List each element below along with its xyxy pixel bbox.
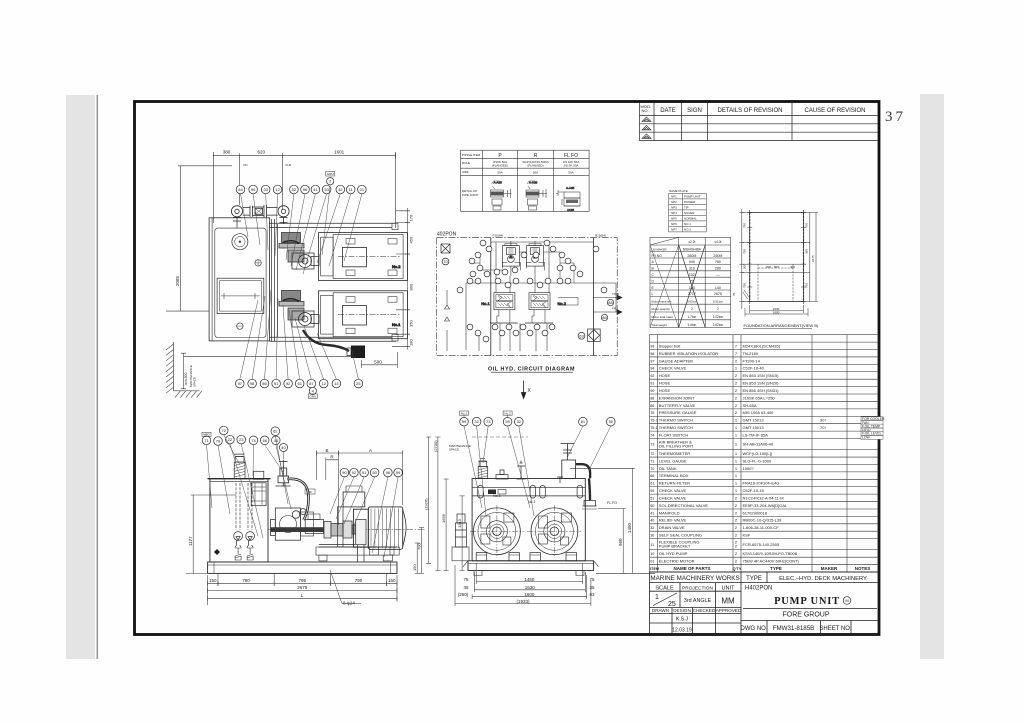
svg-text:32: 32 (474, 419, 479, 424)
svg-text:GRU: GRU (327, 172, 334, 176)
level gauge small circle (255, 260, 261, 266)
svg-text:A135: A135 (567, 208, 574, 212)
svg-text:A-A35: A-A35 (494, 181, 503, 185)
svg-text:50A: 50A (497, 171, 502, 175)
svg-text:1177: 1177 (188, 536, 193, 546)
svg-text:180: 180 (409, 339, 414, 346)
svg-text:(1933): (1933) (516, 599, 530, 604)
svg-text:FLOAT SWITCH: FLOAT SWITCH (659, 432, 689, 437)
svg-text:APPROVED: APPROVED (716, 608, 742, 613)
svg-text:No.1: No.1 (392, 322, 401, 327)
svg-text:750: 750 (743, 249, 747, 254)
svg-text:DRAWN: DRAWN (652, 608, 669, 613)
unit envelope right pads (392, 223, 398, 230)
svg-text:99: 99 (396, 470, 401, 475)
svg-text:50: 50 (609, 419, 614, 424)
svg-text:13: 13 (334, 381, 339, 386)
svg-text:TYPE: TYPE (746, 576, 762, 582)
svg-text:98: 98 (386, 470, 391, 475)
svg-text:No.2: No.2 (504, 411, 511, 415)
drawing frame border (135, 102, 880, 635)
svg-text:61: 61 (581, 419, 586, 424)
svg-text:SCALE: SCALE (655, 586, 674, 592)
svg-text:WCF(LO-100[L]): WCF(LO-100[L]) (743, 451, 773, 456)
svg-text:385: 385 (805, 249, 809, 254)
svg-text:PROJECTION: PROJECTION (682, 586, 713, 592)
flexible hose arc (side) (287, 479, 309, 520)
svg-text:800: 800 (774, 265, 779, 269)
svg-text:42: 42 (338, 187, 343, 192)
svg-text:99: 99 (650, 344, 654, 348)
parts list table (650, 335, 880, 572)
svg-text:90: 90 (342, 470, 347, 475)
plan view top dimension line 380/620/1601 (213, 152, 395, 228)
valve stand w/ handwheel (side) (276, 460, 291, 486)
svg-text:LOW: LOW (862, 436, 871, 440)
pump internals in flywheels (481, 513, 572, 545)
svg-text:DRAIN VALVE: DRAIN VALVE (659, 525, 685, 530)
right side connection stubs (558, 0, 655, 315)
svg-text:87: 87 (309, 381, 314, 386)
svg-text:76: 76 (650, 411, 654, 415)
svg-text:No.1: No.1 (493, 494, 500, 498)
svg-text:MANIFOLD: MANIFOLD (659, 510, 680, 515)
hydraulic pump group (plan) (279, 291, 319, 328)
svg-text:70: 70 (443, 259, 448, 264)
svg-text:HOSE: HOSE (659, 373, 671, 378)
circuit pump unit blocks (502, 241, 520, 276)
motor (side) (343, 486, 406, 555)
svg-text:C52F-10-40: C52F-10-40 (743, 366, 765, 371)
svg-text:800: 800 (409, 283, 414, 290)
leader lines from bottom balloons (240, 290, 359, 379)
svg-text:96: 96 (308, 490, 312, 494)
svg-text:91: 91 (650, 382, 654, 386)
side balloon leaders (207, 435, 292, 538)
svg-text:760: 760 (805, 223, 809, 228)
svg-text:200: 200 (766, 265, 771, 269)
svg-text:2675: 2675 (714, 292, 722, 296)
oil tank (plan) (209, 218, 269, 341)
svg-text:92: 92 (286, 381, 291, 386)
svg-text:170: 170 (409, 214, 414, 221)
svg-text:760: 760 (715, 260, 721, 264)
svg-text:RELIEF VALVE: RELIEF VALVE (659, 518, 687, 523)
svg-text:NP1: NP1 (671, 195, 677, 199)
svg-text:2675: 2675 (811, 255, 815, 262)
svg-text:91: 91 (274, 381, 279, 386)
balloon callouts top row (plan) (236, 185, 245, 194)
circuit manifold blocks No.1 No.2 (481, 293, 518, 323)
svg-text:95: 95 (251, 187, 256, 192)
svg-text:2.62ton: 2.62ton (713, 323, 724, 327)
electric motor No.2 (plan) (319, 233, 408, 281)
P and R supply lines (491, 238, 594, 356)
svg-text:FT200-14: FT200-14 (743, 358, 761, 363)
svg-text:380: 380 (223, 150, 231, 155)
svg-text:No.1: No.1 (481, 301, 490, 306)
svg-text:GAUGE ADAPTER: GAUGE ADAPTER (659, 358, 693, 363)
svg-text:RB00C-10-Q/315-L39: RB00C-10-Q/315-L39 (743, 518, 783, 523)
svg-text:FRA16-20F10F-E4G: FRA16-20F10F-E4G (743, 481, 780, 486)
svg-text:1600: 1600 (524, 592, 535, 597)
circuit bottom drain collectors (445, 283, 617, 351)
svg-text:SPACE: SPACE (193, 377, 197, 387)
svg-text:CHECKED: CHECKED (693, 608, 716, 613)
svg-text:TOW: TOW (612, 292, 619, 296)
svg-text:≤4.0t: ≤4.0t (714, 240, 721, 244)
svg-text:94: 94 (650, 367, 654, 371)
svg-text:71: 71 (650, 459, 654, 463)
leader lines from top balloons (241, 185, 362, 274)
feet (front) (476, 553, 576, 561)
svg-text:ELEC.–HYD. DECK MACHINERY: ELEC.–HYD. DECK MACHINERY (779, 576, 867, 582)
svg-text:A-A35: A-A35 (529, 181, 538, 185)
coupling discs (324, 521, 362, 538)
svg-text:ITEM: ITEM (650, 567, 659, 571)
svg-text:1450: 1450 (524, 577, 535, 582)
svg-text:61702900018: 61702900018 (743, 510, 768, 515)
svg-text:700: 700 (417, 543, 422, 550)
front view machine frame (472, 479, 585, 561)
svg-text:102: 102 (689, 273, 695, 277)
svg-text:TYPE: TYPE (770, 566, 782, 571)
svg-text:66: 66 (650, 474, 654, 478)
plan view left dimension 2085 (166, 166, 232, 311)
svg-text:KSF: KSF (743, 533, 751, 538)
svg-text:NP4: NP4 (671, 211, 677, 215)
svg-text:POWER: POWER (684, 200, 696, 204)
svg-text:402PON: 402PON (437, 232, 457, 238)
crossed-out column X (679, 245, 706, 328)
svg-text:12: 12 (275, 187, 280, 192)
svg-text:EE5P-33-204-WA[D]GAL: EE5P-33-204-WA[D]GAL (743, 503, 789, 508)
svg-text:FMW31-8185B: FMW31-8185B (773, 625, 815, 632)
check valve assembly right (front) (561, 444, 598, 510)
svg-text:LEVEL GAUGE: LEVEL GAUGE (659, 458, 687, 463)
strainer symbol box (441, 244, 450, 253)
svg-text:DWG NO.: DWG NO. (741, 626, 768, 632)
balloon callouts bottom row (plan) (236, 379, 245, 388)
svg-text:NP3: NP3 (671, 206, 677, 210)
svg-text:PIPE JOINT: PIPE JOINT (462, 193, 479, 197)
svg-text:3.4ton: 3.4ton (687, 323, 696, 327)
svg-text:10: 10 (650, 552, 654, 556)
svg-text:A-A35: A-A35 (566, 186, 575, 190)
svg-text:UNIT: UNIT (721, 586, 735, 592)
svg-text:FR.NO: FR.NO (652, 254, 663, 258)
svg-text:J10SK 65A L=250: J10SK 65A L=250 (743, 395, 776, 400)
svg-text:1000?: 1000? (743, 466, 755, 471)
svg-text:ELECTRIC MOTOR: ELECTRIC MOTOR (659, 558, 695, 563)
svg-text:2717: 2717 (688, 292, 696, 296)
svg-text:B: B (325, 448, 328, 453)
base skid (front) (463, 561, 599, 576)
svg-text:(FLANGED): (FLANGED) (492, 164, 508, 168)
tank manhole (217, 278, 264, 313)
svg-text:(1926): (1926) (424, 498, 429, 510)
svg-text:CHECK VALVE: CHECK VALVE (659, 495, 687, 500)
svg-text:41: 41 (313, 187, 318, 192)
svg-text:MPG: MPG (203, 433, 211, 437)
svg-text:750: 750 (743, 223, 747, 228)
svg-text:450: 450 (409, 236, 414, 243)
svg-text:300: 300 (743, 264, 747, 269)
pump / manifold column between tank and motors (270, 219, 397, 341)
svg-text:75-2: 75-2 (650, 419, 658, 423)
svg-text:NO.2: NO.2 (684, 228, 691, 232)
left cooler unit (front) (452, 514, 469, 561)
svg-text:92: 92 (352, 470, 357, 475)
svg-text:PUMP UNIT: PUMP UNIT (684, 195, 701, 199)
svg-text:Motor quantity: Motor quantity (652, 307, 671, 311)
svg-text:THERMO SWITCH: THERMO SWITCH (659, 425, 693, 430)
svg-text:min.500: min.500 (184, 372, 188, 385)
svg-text:SOL.DIRECTIONAL VALVE: SOL.DIRECTIONAL VALVE (659, 503, 709, 508)
svg-text:MAKER: MAKER (821, 566, 838, 571)
svg-text:L: L (652, 292, 654, 296)
svg-text:SHEET NO.: SHEET NO. (819, 626, 852, 632)
svg-text:RULE: RULE (462, 161, 470, 165)
svg-text:86: 86 (262, 381, 267, 386)
svg-text:98: 98 (250, 381, 255, 386)
svg-text:59: 59 (505, 419, 510, 424)
svg-text:NO.: NO. (642, 108, 649, 113)
svg-text:PIPING ITEM: PIPING ITEM (462, 153, 481, 157)
svg-text:23: 23 (239, 437, 244, 442)
svg-text:51: 51 (362, 470, 367, 475)
svg-text:400: 400 (790, 265, 795, 269)
svg-text:(FLANGED): (FLANGED) (527, 164, 543, 168)
central vertical dimension cluster (415, 437, 465, 573)
svg-text:2675: 2675 (297, 585, 308, 590)
svg-text:FL FO: FL FO (564, 153, 578, 159)
svg-text:97: 97 (238, 381, 243, 386)
svg-text:12.03.19: 12.03.19 (672, 628, 692, 634)
svg-text:51: 51 (650, 496, 654, 500)
self seal coupling (dark block) (351, 346, 365, 359)
svg-text:OIL HYD. CIRCUIT DIAGRAM: OIL HYD. CIRCUIT DIAGRAM (488, 366, 575, 372)
left grey scan band (66, 95, 95, 659)
svg-text:280: 280 (715, 267, 721, 271)
side view bottom dimensions (208, 573, 397, 605)
svg-text:790: 790 (355, 578, 363, 583)
air breather (plan circle) (232, 234, 248, 250)
svg-text:CHECK VALVE: CHECK VALVE (659, 488, 687, 493)
svg-text:JIS 5K 50A: JIS 5K 50A (563, 164, 578, 168)
svg-text:Total weight: Total weight (652, 323, 667, 327)
suction strainer (234, 532, 243, 541)
title block (650, 572, 880, 635)
svg-text:MIS 100A 63-400: MIS 100A 63-400 (743, 410, 775, 415)
svg-text:59: 59 (650, 489, 654, 493)
svg-text:P15(64): P15(64) (493, 234, 504, 238)
svg-text:35: 35 (463, 585, 469, 590)
svg-text:BUTTERFLY VALVE: BUTTERFLY VALVE (659, 403, 696, 408)
svg-text:HOSE: HOSE (659, 381, 671, 386)
pipe joint detail sketch (491, 181, 512, 211)
drain valves under tank (side) (235, 548, 241, 560)
svg-text:50: 50 (650, 504, 654, 508)
svg-text:1450: 1450 (627, 522, 632, 533)
svg-text:NORMAL: NORMAL (684, 217, 697, 221)
svg-text:NAME PLATE: NAME PLATE (669, 189, 688, 193)
svg-text:THERMO SWITCH: THERMO SWITCH (659, 418, 693, 423)
svg-text:M: M (845, 598, 848, 603)
svg-text:2: 2 (717, 307, 719, 311)
svg-text:8-φ24: 8-φ24 (343, 601, 355, 606)
svg-text:72: 72 (650, 452, 654, 456)
svg-text:TN-2160: TN-2160 (743, 351, 759, 356)
svg-text:90: 90 (650, 389, 654, 393)
svg-text:61: 61 (297, 381, 302, 386)
svg-text:70: 70 (650, 467, 654, 471)
svg-text:2085: 2085 (175, 275, 180, 286)
svg-text:NP6: NP6 (671, 222, 677, 226)
circuit small balloons (480, 240, 486, 246)
svg-text:52: 52 (292, 187, 297, 192)
svg-text:1.7ton: 1.7ton (687, 315, 696, 319)
svg-text:R15(64): R15(64) (595, 234, 606, 238)
front view balloons (460, 417, 469, 426)
svg-text:150: 150 (209, 578, 217, 583)
svg-text:84: 84 (238, 187, 243, 192)
revision triangles (642, 117, 651, 138)
svg-text:A: A (369, 448, 372, 453)
svg-text:Motor total mass: Motor total mass (652, 315, 674, 319)
raised balloon with tag (326, 172, 335, 177)
svg-text:GMT 15013: GMT 15013 (743, 418, 765, 423)
electric motor No.1 (plan) (319, 291, 408, 339)
return filter on tank (side) (251, 471, 266, 505)
svg-text:Stopper bolt: Stopper bolt (659, 343, 681, 348)
svg-text:GRU: GRU (309, 394, 316, 398)
center small valve on top (front) (517, 463, 526, 479)
svg-text:50: 50 (372, 470, 377, 475)
svg-text:OIL HYD.PUMP: OIL HYD.PUMP (659, 551, 688, 556)
svg-text:HOSE: HOSE (659, 388, 671, 393)
svg-text:EN 856 4SH (SN31): EN 856 4SH (SN31) (743, 388, 780, 393)
svg-text:170: 170 (689, 286, 695, 290)
svg-text:Motor mass/unit: Motor mass/unit (652, 299, 672, 303)
svg-text:12: 12 (321, 381, 326, 386)
motor maker table (650, 237, 731, 327)
svg-text:OIL FILLING PORT: OIL FILLING PORT (659, 443, 694, 448)
maintenance wall hatching (166, 342, 202, 398)
svg-text:310: 310 (689, 267, 695, 271)
svg-text:PUMP UNIT: PUMP UNIT (774, 596, 840, 607)
svg-text:75: 75 (732, 292, 736, 296)
svg-text:M24X180L(SCM435): M24X180L(SCM435) (743, 343, 781, 348)
flywheel No.2 (front) (527, 505, 581, 558)
svg-text:FOUNDATION ARRANGEMENT(VIEW B: FOUNDATION ARRANGEMENT(VIEW B) (744, 323, 819, 328)
svg-text:H402PON: H402PON (745, 586, 772, 592)
svg-text:32: 32 (650, 526, 654, 530)
svg-text:280M: 280M (687, 254, 696, 258)
svg-text:PRESSURE GAUGE: PRESSURE GAUGE (659, 410, 697, 415)
svg-text:350: 350 (409, 320, 414, 327)
svg-text:2: 2 (691, 307, 693, 311)
svg-text:MARINE MACHINERY WORKS: MARINE MACHINERY WORKS (650, 575, 739, 582)
svg-text:No.1: No.1 (461, 411, 468, 415)
svg-text:72: 72 (690, 279, 694, 283)
svg-text:CHECK VALVE: CHECK VALVE (659, 366, 687, 371)
svg-text:SELF SEAL COUPLING: SELF SEAL COUPLING (659, 533, 702, 538)
svg-text:500: 500 (374, 359, 382, 364)
front view bottom dimensions (455, 563, 591, 606)
svg-text:75-1: 75-1 (650, 426, 658, 430)
svg-text:NOTES: NOTES (855, 566, 871, 571)
svg-text:25: 25 (668, 601, 676, 608)
svg-text:FLB: FLB (286, 163, 292, 167)
svg-text:250M: 250M (713, 254, 722, 258)
svg-text:SIGN: SIGN (687, 108, 702, 114)
suction strainer (246, 532, 255, 541)
svg-text:11: 11 (650, 543, 654, 547)
svg-text:FL.FO: FL.FO (607, 501, 617, 505)
svg-text:LM MAKER: LM MAKER (652, 248, 667, 252)
svg-text:74: 74 (650, 433, 654, 437)
svg-text:75kW 4P AC440V 60Hz(CONT): 75kW 4P AC440V 60Hz(CONT) (743, 558, 800, 563)
svg-text:(2700): (2700) (433, 440, 438, 452)
svg-text:R: R (534, 153, 538, 159)
svg-text:66: 66 (262, 438, 267, 443)
svg-text:THERMOMETER: THERMOMETER (659, 451, 690, 456)
svg-text:73: 73 (486, 419, 491, 424)
cooler (588, 329, 601, 342)
svg-text:3rd ANGLE: 3rd ANGLE (684, 598, 712, 604)
svg-text:EN 853 1SN (SN20): EN 853 1SN (SN20) (743, 381, 780, 386)
svg-text:1656: 1656 (441, 513, 446, 523)
svg-text:TIP: TIP (684, 206, 689, 210)
svg-text:22: 22 (228, 437, 233, 442)
svg-text:83: 83 (589, 592, 595, 597)
svg-text:01: 01 (360, 187, 365, 192)
svg-text:98: 98 (650, 352, 654, 356)
svg-text:59: 59 (462, 419, 467, 424)
piping spec table (461, 150, 589, 211)
drain small circle (237, 323, 243, 329)
svg-text:NP2: NP2 (671, 200, 677, 204)
plan right-side dimension chain 170/450/800/350/180 (392, 208, 410, 350)
svg-text:DESIGN: DESIGN (673, 608, 691, 613)
svg-text:1-606-28-11-000-CF: 1-606-28-11-000-CF (743, 525, 780, 530)
svg-text:960: 960 (618, 538, 623, 546)
svg-text:30↑: 30↑ (820, 418, 826, 423)
svg-text:760: 760 (805, 283, 809, 288)
svg-text:88: 88 (608, 300, 613, 305)
top suction piping with butterfly valves (231, 205, 289, 228)
svg-text:0.51ton: 0.51ton (713, 299, 723, 303)
svg-text:TERMINAL BOX: TERMINAL BOX (659, 473, 689, 478)
svg-text:150: 150 (412, 564, 417, 571)
side view left dimension 1177 (186, 495, 236, 573)
svg-text:KSVL140/9-10RJM-PO-TB008: KSVL140/9-10RJM-PO-TB008 (743, 551, 798, 556)
svg-text:40: 40 (281, 445, 286, 450)
svg-text:88: 88 (650, 396, 654, 400)
svg-text:72: 72 (221, 428, 226, 433)
svg-text:140: 140 (715, 286, 721, 290)
svg-text:SIZE: SIZE (462, 170, 469, 174)
svg-text:Q'TY: Q'TY (733, 567, 742, 571)
svg-text:0.62ton: 0.62ton (687, 299, 697, 303)
svg-text:795: 795 (299, 578, 307, 583)
svg-text:75: 75 (463, 577, 469, 582)
svg-text:SH-65A: SH-65A (743, 403, 757, 408)
svg-text:(250): (250) (458, 592, 469, 597)
svg-text:96: 96 (303, 187, 308, 192)
svg-text:70: 70 (216, 439, 221, 444)
